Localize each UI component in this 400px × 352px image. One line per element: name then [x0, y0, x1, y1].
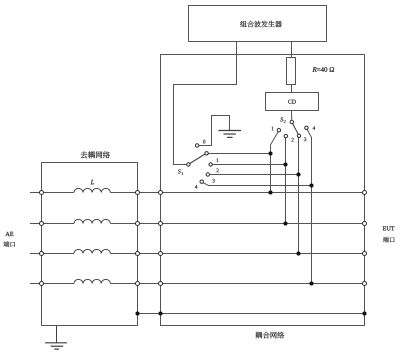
label EUT port — [383, 226, 395, 230]
S2 pin label 2 — [291, 138, 293, 142]
label 耦合网络 — [255, 332, 284, 339]
S2 pin label 4 — [313, 126, 316, 130]
S2 pin label 3 — [304, 138, 306, 142]
switch S2 arm (pole to contact 3) — [292, 123, 298, 134]
line L2 coupling network segment — [138, 223, 365, 225]
inductor L3 — [74, 249, 111, 253]
S2 contact 3 — [297, 134, 300, 137]
junction node 1 (S1 wire / S2 drop 1) — [268, 151, 272, 155]
terminal L2 EUT side — [363, 222, 367, 226]
label S1 — [178, 169, 181, 173]
S2 contact 1 — [277, 129, 280, 132]
wire CD to switch S2 pole — [291, 111, 293, 122]
junction node 2 (S1 wire / S2 drop 2) — [283, 162, 287, 166]
label CD — [288, 100, 296, 104]
terminal L4 EUT side — [363, 282, 367, 286]
ground symbol at S1 position 0 — [218, 131, 241, 138]
junction node 4 (S1 wire / S2 drop 4) — [309, 183, 313, 187]
S1 pin label 1 — [216, 158, 218, 162]
junction PE / decoupling box edge — [135, 311, 139, 315]
wire resistor to CD — [291, 85, 293, 93]
S2 pin label 1 — [272, 127, 274, 131]
terminal L1 EUT side — [363, 191, 367, 195]
S1 contact 3 — [206, 173, 209, 176]
wire S1 contact 3 to node 3 — [208, 174, 299, 176]
inductor L1 — [74, 188, 111, 192]
PE conductor — [138, 313, 365, 315]
junction PE / coupling box left edge — [158, 311, 162, 315]
line L1 AE stub — [30, 192, 42, 194]
terminal L4 decoupling box right — [136, 282, 140, 286]
terminal L1 coupling box left — [159, 191, 163, 195]
resistor R1 (40 ohm) — [287, 58, 296, 85]
line L3 decoupling segment right — [110, 253, 137, 255]
line L2 AE stub — [30, 223, 42, 225]
wire S1 contact 4 to node 4 — [202, 182, 312, 185]
S2 contact 4 — [305, 126, 308, 129]
label S2 — [280, 117, 283, 121]
wire S2 contact 1 down to line L1 — [271, 132, 279, 193]
S1 pin label 4 — [195, 185, 198, 189]
wire S2 contact 4 down to line L4 — [307, 129, 312, 283]
wire S1 contact 1 to node 1 — [207, 153, 271, 155]
inductor L4 — [74, 279, 111, 283]
wire generator left terminal to switch S1 pole — [174, 42, 237, 165]
wire S2 contact 3 down to line L3 — [298, 137, 300, 253]
line L2 decoupling segment left — [42, 223, 74, 225]
line L4 decoupling segment left — [42, 283, 74, 285]
label EUT 端口 — [383, 237, 395, 243]
S1 pin label 0 — [203, 140, 205, 144]
terminal L1 decoupling box left — [40, 191, 44, 195]
line L3 AE stub — [30, 253, 42, 255]
wire S1 contact 0 to earth — [197, 116, 229, 146]
decoupling network box — [42, 163, 138, 326]
S1 contact 4 — [200, 180, 203, 183]
line L4 decoupling segment right — [110, 283, 137, 285]
line L4 AE stub — [30, 283, 42, 285]
line L1 decoupling segment right — [110, 192, 137, 194]
S1 pin label 2 — [216, 169, 218, 173]
S2 pole contact — [290, 120, 293, 123]
terminal L3 decoupling box left — [40, 252, 44, 256]
S2 contact 2 — [284, 134, 287, 137]
switch S1 arm (pole to contact 1) — [190, 154, 206, 164]
label L (inductance) — [91, 180, 94, 184]
line L3 decoupling segment left — [42, 253, 74, 255]
S1 pin label 3 — [213, 179, 215, 183]
label AE 端口 — [3, 241, 15, 247]
junction drop 4 / line L4 — [309, 281, 313, 285]
terminal L3 EUT side — [363, 252, 367, 256]
line L1 coupling network segment — [138, 192, 365, 194]
inductor L2 — [74, 219, 111, 223]
junction drop 3 / line L3 — [296, 251, 300, 255]
terminal L4 decoupling box left — [40, 282, 44, 286]
label 组合波发生器 — [240, 21, 282, 28]
S1 contact 2 — [209, 163, 212, 166]
wire S2 contact 2 down to line L2 — [285, 137, 287, 223]
terminal L4 coupling box left — [159, 282, 163, 286]
ground symbol at decoupling network bottom — [45, 326, 67, 350]
line L1 decoupling segment left — [42, 192, 74, 194]
line L3 coupling network segment — [138, 253, 365, 255]
S1 contact 1 — [205, 152, 208, 155]
terminal L2 coupling box left — [159, 222, 163, 226]
S1 contact 0 — [195, 144, 198, 147]
label 去耦网络 — [81, 151, 110, 158]
S1 pole contact — [187, 163, 190, 166]
line L4 coupling network segment — [138, 283, 365, 285]
terminal L3 coupling box left — [159, 252, 163, 256]
terminal L2 decoupling box right — [136, 222, 140, 226]
terminal L2 decoupling box left — [40, 222, 44, 226]
terminal L1 decoupling box right — [136, 191, 140, 195]
coupling network outer box — [161, 55, 365, 326]
junction node 3 (S1 wire / S2 drop 3) — [296, 172, 300, 176]
coupling device CD box — [266, 93, 319, 111]
label AE port — [5, 232, 13, 236]
terminal L3 decoupling box right — [136, 252, 140, 256]
value label R=40 ohm — [312, 67, 334, 72]
junction drop 2 / line L2 — [283, 221, 287, 225]
wire S1 contact 2 to node 2 — [211, 164, 286, 166]
wire generator right terminal down to resistor R — [291, 42, 293, 58]
junction PE / coupling box right edge — [362, 311, 366, 315]
generator box (combination wave generator) — [189, 6, 327, 42]
line L2 decoupling segment right — [110, 223, 137, 225]
junction drop 1 / line L1 — [268, 190, 272, 194]
